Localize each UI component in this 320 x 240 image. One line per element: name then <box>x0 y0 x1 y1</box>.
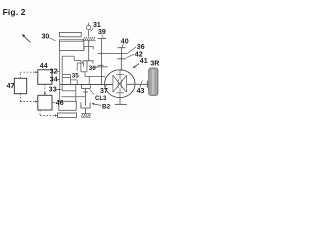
motor M2 stator rect <box>58 113 77 118</box>
wire left wall outer <box>59 51 61 85</box>
arrowhead 44 to 46 <box>44 93 46 95</box>
leader line 42 <box>126 54 134 58</box>
gear 42 stem <box>121 54 123 59</box>
leader line 32 <box>57 70 60 72</box>
gear 35 vertical x70.6 <box>70 74 72 84</box>
leader line 47 <box>13 85 14 87</box>
leader line 34 <box>57 78 60 80</box>
leader line CL3 <box>90 90 95 95</box>
arrowhead B2 <box>92 103 95 105</box>
dashed wire 46 to motor M2 <box>40 115 55 117</box>
wheel hub tick <box>146 81 148 88</box>
brake hatch stroke 1 <box>81 114 83 117</box>
leader line 37 <box>105 85 107 88</box>
gear 35 step y79.9 <box>71 79 78 81</box>
svg-text:35: 35 <box>72 73 79 80</box>
gear box left edge <box>76 63 78 71</box>
wire case to clutch stem <box>88 40 90 61</box>
wire step vertical x74 <box>73 56 75 60</box>
gear 35 upper line <box>62 73 70 75</box>
overall designator arrow <box>24 36 31 43</box>
leader line 36 left <box>95 67 97 68</box>
ECU box 47 <box>14 78 26 93</box>
case hatch stroke 4 <box>89 37 91 40</box>
diff top stem <box>119 70 121 79</box>
leader line 40 <box>122 44 123 47</box>
svg-text:36: 36 <box>137 44 145 51</box>
svg-text:47: 47 <box>7 83 15 90</box>
cup left arm <box>80 60 82 71</box>
diff left side gear <box>112 75 114 92</box>
wire link y96.8 <box>62 96 86 98</box>
gear cap 36 upper <box>98 64 104 66</box>
svg-text:37: 37 <box>100 88 108 95</box>
axle shaft 43 <box>127 83 149 85</box>
dashed wire 47 to 44 <box>20 71 36 73</box>
svg-text:33: 33 <box>49 86 57 93</box>
leader arrow B2 <box>93 104 101 106</box>
motor M2 rotor rect <box>59 101 76 110</box>
leader line 36 right <box>128 47 136 53</box>
clutch CL3 bottom bar <box>82 88 91 90</box>
diff diagonal 1 <box>113 76 126 93</box>
brake hatch stroke 5 <box>89 114 90 117</box>
diff bottom stem <box>119 89 121 98</box>
wire left wall inner <box>61 56 63 91</box>
cup bottom bar <box>81 71 87 73</box>
ring gear bar to differential <box>85 75 106 77</box>
gear 35 vertical x77.2 <box>76 80 78 85</box>
wire wall below shaft <box>59 85 61 102</box>
diff right side gear <box>126 75 128 92</box>
wire step horizontal y56 <box>62 55 74 57</box>
gear 35 lower line <box>62 77 70 79</box>
diff bottom pinion bar <box>116 92 124 94</box>
leader line 43 <box>140 80 143 87</box>
inverter box 44 <box>38 70 52 85</box>
brake case bottom line <box>81 116 91 118</box>
svg-text:Fig. 2: Fig. 2 <box>3 7 26 17</box>
svg-text:41: 41 <box>140 58 148 65</box>
gear cap 39 <box>98 37 106 39</box>
wire hanger to main shaft <box>88 76 90 84</box>
arrowhead of designator arrow <box>22 34 25 37</box>
diff pinion left <box>117 79 119 88</box>
cup right arm <box>86 68 88 72</box>
wire brake to case <box>84 108 86 114</box>
leader line 31 <box>91 28 94 31</box>
clutch lower plate <box>83 61 93 64</box>
brake hatch stroke 4 <box>87 114 89 117</box>
leader line 33 <box>56 88 62 90</box>
leader line 39 <box>102 35 104 38</box>
leader line 30 <box>49 38 56 41</box>
diff support bar <box>115 103 127 105</box>
svg-text:34: 34 <box>50 76 58 83</box>
svg-text:46: 46 <box>56 100 64 107</box>
clutch CL3 right arm <box>89 85 91 89</box>
wire clutch to cup <box>86 61 88 68</box>
wire vertical x75.8 <box>75 85 77 102</box>
arrowhead 41 <box>133 66 136 68</box>
wire pump to case <box>88 30 90 36</box>
brake B2 cup <box>81 102 90 108</box>
gear box top edge <box>77 62 83 64</box>
case hatch stroke 5 <box>91 37 93 40</box>
svg-text:3R: 3R <box>150 61 159 68</box>
leader line 44 <box>43 69 45 70</box>
leader line 46 <box>52 101 55 103</box>
wire diff to support <box>119 97 121 104</box>
wire link y90.8 <box>62 90 76 92</box>
inverter box 46 <box>38 95 52 110</box>
case hatch stroke 3 <box>87 37 89 40</box>
countershaft vertical <box>100 38 102 84</box>
dashed wire 46 down <box>39 110 41 116</box>
svg-text:31: 31 <box>93 22 101 29</box>
wheel 3R highlight stripe <box>152 69 154 94</box>
diff diagonal 2 <box>113 76 126 93</box>
clutch CL3 plate bar <box>83 91 88 93</box>
gear 40 cap <box>118 47 126 49</box>
wire cup to ring bar <box>84 72 86 77</box>
brake hatch stroke 2 <box>83 114 85 117</box>
gear 40 stem <box>121 48 123 54</box>
dashed wire 44 to 46 <box>44 84 46 93</box>
main shaft <box>60 84 113 86</box>
brake case wall line <box>81 113 91 115</box>
case hatch stroke 2 <box>85 37 87 40</box>
leader arrow 41 <box>134 64 139 68</box>
diff top pinion bar <box>116 74 124 76</box>
wire CL3 to brake <box>85 89 87 106</box>
dashed wire 47 to 46 <box>20 101 36 103</box>
diff pinion right <box>120 79 122 88</box>
rotor inner top line <box>59 40 83 42</box>
motor M1 rotor rect <box>59 40 83 51</box>
clutch upper plate <box>84 47 93 50</box>
wheel 3R body <box>149 68 158 95</box>
svg-text:30: 30 <box>42 34 50 41</box>
gear box right edge <box>83 63 85 67</box>
motor M1 stator rect 30 <box>59 32 81 36</box>
svg-text:40: 40 <box>121 38 129 45</box>
brake hatch stroke 3 <box>85 114 87 117</box>
svg-text:B2: B2 <box>102 104 111 111</box>
dashed wire 47 down <box>19 94 21 102</box>
gear cap 36 lower <box>95 66 108 68</box>
case hatch stroke 1 <box>83 37 85 40</box>
arrowhead into motor M2 <box>55 114 57 116</box>
svg-text:CL3: CL3 <box>95 96 107 102</box>
differential 41 case circle <box>105 70 135 98</box>
case hatch stroke 6 <box>93 37 95 40</box>
oil pump circle 31 <box>87 25 91 29</box>
svg-text:36: 36 <box>89 65 96 72</box>
upper shaft 38 <box>98 53 128 55</box>
pump top stub <box>88 23 90 25</box>
wire step horizontal y60 <box>74 59 81 61</box>
wire 42 to differential <box>120 59 122 71</box>
gear 42 cap <box>117 58 125 60</box>
svg-text:32: 32 <box>50 68 58 75</box>
arrowhead into 44 <box>35 71 37 73</box>
case wall line <box>83 39 96 41</box>
svg-text:43: 43 <box>137 88 145 95</box>
dashed wire 47 up <box>19 72 21 78</box>
arrowhead into 46 <box>35 100 37 102</box>
clutch CL3 left arm <box>81 85 83 89</box>
